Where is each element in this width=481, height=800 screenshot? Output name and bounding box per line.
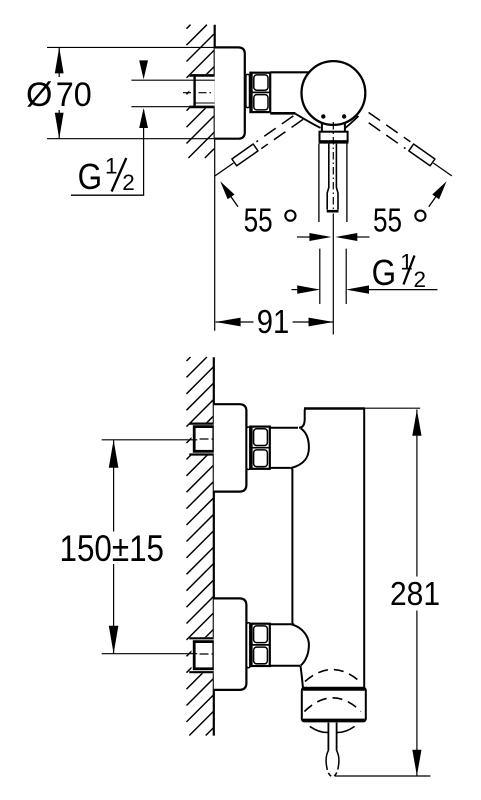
converging angle arrows at centre [297,233,370,241]
dimension 281 [390,410,440,776]
concealed pipe fitting in wall (top view) [183,74,215,108]
svg-text:2: 2 [122,170,135,195]
svg-text:55: 55 [244,203,273,240]
dimension G 1/2 (outlet thread) extension lines [320,249,346,304]
svg-text:G: G [372,252,397,293]
lever rod and tip (top view) [327,144,339,212]
lower union hex nut (front view) [250,623,270,667]
union hex nut (top view) [250,72,270,113]
svg-text:G: G [78,156,103,197]
svg-text:Ø: Ø [26,76,52,114]
spacer disc between flange and nut (top view) [246,74,250,107]
label 55deg left [244,203,296,240]
handle boss silhouette right (top view) [345,116,359,128]
dimension G 1/2 (outlet) [292,249,438,294]
angle arrow left 55deg [220,181,238,206]
upper wall flange (front view) [214,404,247,491]
hidden coupling circle inner arc (dashed) [304,698,361,712]
svg-text:91: 91 [257,303,290,340]
dimension extension lines 150 [102,440,198,654]
lower spacer disc [247,623,251,668]
wall surface line (front view) [213,357,215,735]
lower check-valve housing [270,624,309,666]
shower hose coupling cylinder [302,688,366,722]
outlet neck below housing [301,666,303,688]
valve head circle (top view) [302,61,366,125]
rotated lever position 55deg right (dashed) [369,113,452,176]
dimension extension lines 281 [335,408,431,776]
svg-text:70: 70 [56,76,92,114]
upper check-valve housing [270,410,309,471]
coupling underside arc [310,726,355,732]
lever grip outline (top view) [319,144,347,222]
dimension 150 +/- 15 [60,440,165,654]
hidden coupling circle upper arc (dashed) [305,670,360,682]
hose nipple [326,723,339,777]
screw dot left [321,114,325,118]
body tube from nut to valve head (top view) [270,72,310,113]
svg-text:1: 1 [105,153,118,178]
svg-text:55: 55 [373,203,402,240]
dimension 91 [216,303,334,340]
wall flange / escutcheon (top view) [215,47,245,138]
dimension dia 70 [26,47,92,138]
wall surface line (top view) [214,25,216,331]
upper spacer disc [247,427,251,470]
lever neck (top view) [322,123,345,132]
upper concealed connection in wall [189,423,214,456]
label 55deg right [373,203,426,240]
G 1/2 thread extension lines (wall connection, top) [131,80,214,107]
angle arrow right 55deg [429,181,447,206]
rotated lever position 55deg left (dashed) [215,116,303,176]
lower concealed connection in wall [189,637,214,673]
faucet body (front view) [292,409,365,688]
handle boss silhouette left (top view) [296,114,321,128]
svg-text:2: 2 [414,267,427,292]
svg-text:281: 281 [390,576,440,613]
lower wall flange (front view) [214,598,247,690]
wall (front view) hatching [187,357,214,736]
svg-text:150±15: 150±15 [60,527,165,569]
lever ferrule (top view) [319,132,349,142]
upper union hex nut (front view) [250,426,270,469]
screw dot right [342,114,346,118]
dimension extension lines for dia 70 [47,47,215,138]
wall (top view) hatching [187,25,215,158]
label G 1/2 (wall connection, top) [71,60,148,197]
svg-text:1: 1 [400,249,413,274]
centre line of faucet (top view) [332,122,334,335]
